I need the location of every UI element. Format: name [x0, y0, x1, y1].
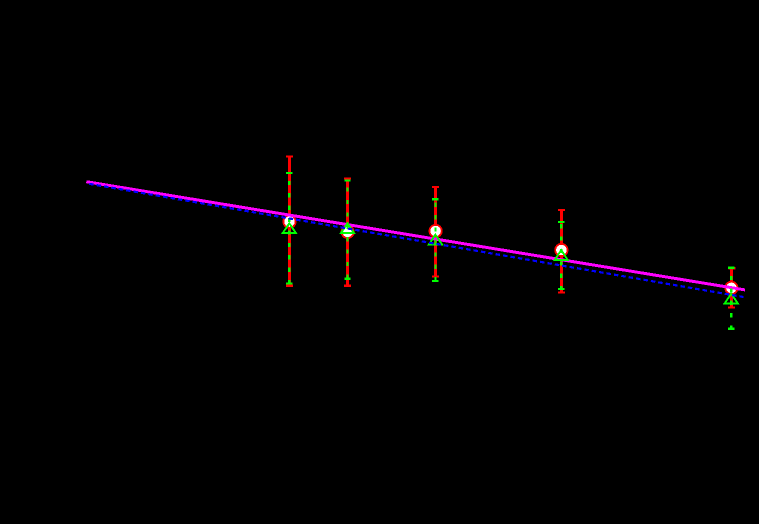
green dashed error bar P4	[558, 222, 564, 289]
circle marker P1	[283, 215, 295, 227]
green dashed error bar P3	[432, 199, 438, 281]
green triangle marker P5	[725, 294, 738, 304]
green triangle marker P2	[341, 223, 354, 233]
green dashed error bar P2	[344, 181, 350, 279]
red error bar P4	[558, 210, 565, 293]
green dashed error bar P5	[728, 268, 734, 329]
green triangle marker P3	[429, 235, 442, 245]
green triangle marker P4	[555, 250, 568, 260]
circle marker P3	[429, 225, 441, 237]
circle marker P5	[725, 282, 737, 294]
green triangle marker P1	[283, 223, 296, 233]
red error bar P1	[286, 156, 293, 285]
green dashed error bar P1	[286, 173, 292, 284]
magenta solid fit line	[86, 182, 745, 290]
blue dashed fit line	[88, 184, 744, 297]
red error bar P2	[344, 179, 351, 286]
circle marker P2	[342, 226, 354, 238]
circle marker P4	[555, 244, 567, 256]
red error bar P3	[432, 187, 439, 277]
red error bar P5	[728, 268, 736, 307]
